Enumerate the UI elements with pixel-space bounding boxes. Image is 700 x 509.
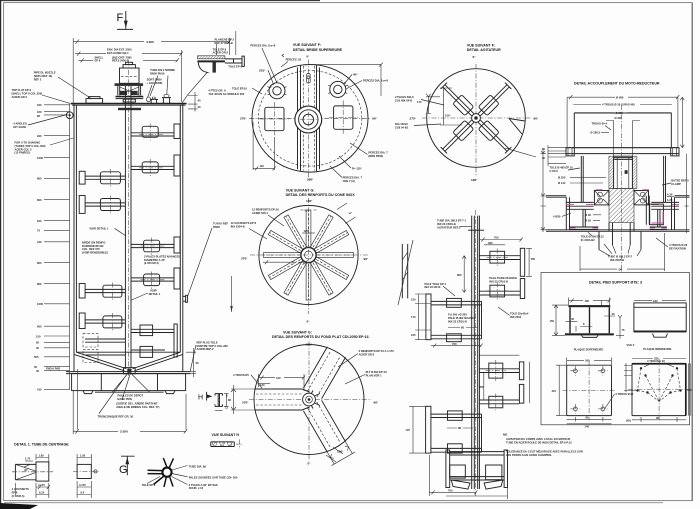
svg-text:BASE P600: BASE P600 <box>118 397 133 401</box>
svg-text:700: 700 <box>448 489 453 493</box>
svg-text:180°: 180° <box>306 199 313 203</box>
svg-text:TOLERANCE DU 2 EST MESURAGE AV: TOLERANCE DU 2 EST MESURAGE AVEC PARALLE… <box>506 449 583 453</box>
stuffing box gland <box>116 91 144 102</box>
svg-text:(SHELL TOP 0 COL.300): (SHELL TOP 0 COL.300) <box>12 92 43 96</box>
spoke strips drawn explicitly <box>0 0 1 1</box>
svg-text:4 TROUS R5: 4 TROUS R5 <box>233 373 249 377</box>
svg-text:2 PALES PLATES NUANCES: 2 PALES PLATES NUANCES <box>144 254 180 258</box>
svg-text:TROUS Ø=4: TROUS Ø=4 <box>592 122 608 126</box>
svg-text:(BRD P600): (BRD P600) <box>368 154 383 158</box>
wide spoke upper right (60deg) <box>303 347 346 400</box>
svg-text:40: 40 <box>612 312 615 316</box>
svg-text:800: 800 <box>37 261 42 265</box>
bolt circle dashed <box>258 71 362 167</box>
svg-text:DN50: DN50 <box>213 225 220 229</box>
svg-text:Ø 20: Ø 20 <box>585 218 591 222</box>
left side shelf <box>546 196 570 230</box>
svg-text:EP 6: EP 6 <box>95 59 101 63</box>
svg-text:4.175: 4.175 <box>38 483 45 487</box>
svg-text:INX 23 CR10: INX 23 CR10 <box>425 285 441 289</box>
detail view 1 <box>12 454 53 499</box>
bottom left label <box>581 232 604 241</box>
svg-text:150°: 150° <box>337 449 344 453</box>
svg-text:TOLE EP 8: TOLE EP 8 <box>142 483 156 487</box>
svg-text:(12 PAIRES): (12 PAIRES) <box>15 151 30 155</box>
4 trous label <box>233 373 262 388</box>
svg-text:INX 23 CR10-B: INX 23 CR10-B <box>489 279 508 283</box>
svg-text:TOLE 25x45x4: TOLE 25x45x4 <box>510 311 529 315</box>
outer sleeve below platform <box>599 231 641 256</box>
svg-text:(WITH REF 10): (WITH REF 10) <box>34 74 53 78</box>
svg-text:12: 12 <box>225 405 228 409</box>
svg-text:ACIER GR-2: ACIER GR-2 <box>213 51 229 55</box>
svg-text:4 TROUS Ø 18 SUR Ø 450: 4 TROUS Ø 18 SUR Ø 450 <box>602 103 635 107</box>
svg-text:Ø 30: Ø 30 <box>585 213 591 217</box>
lid fitting right eye <box>162 94 171 103</box>
12 reinforcement strips of view G <box>264 210 354 300</box>
svg-text:+ GOUJONS: + GOUJONS <box>147 81 163 85</box>
left paddle set 2 <box>79 283 125 331</box>
svg-text:90°: 90° <box>374 401 379 405</box>
svg-text:505: 505 <box>34 355 39 359</box>
svg-text:PERCES 1/2: PERCES 1/2 <box>286 58 302 62</box>
dim 480 <box>567 95 679 148</box>
lid nozzle left <box>86 97 103 104</box>
tank shell walls <box>74 104 183 372</box>
right side shelf + leg <box>672 196 690 230</box>
svg-text:PIPE DL NOZZLE: PIPE DL NOZZLE <box>34 71 56 75</box>
annotations right <box>338 349 394 384</box>
top-left small dim <box>258 383 270 387</box>
left small dims <box>541 145 567 232</box>
svg-text:TUYAU REF: TUYAU REF <box>213 221 228 225</box>
svg-text:F: F <box>117 12 124 24</box>
svg-text:EP.6 ACIER GR-1: EP.6 ACIER GR-1 <box>107 51 129 55</box>
svg-text:12 RENFORTS EP:10: 12 RENFORTS EP:10 <box>252 207 279 211</box>
svg-text:50: 50 <box>34 365 37 369</box>
svg-text:80: 80 <box>458 426 461 430</box>
agitator shaft upper <box>125 86 131 105</box>
svg-text:2 CR-2: 2 CR-2 <box>549 169 558 173</box>
svg-text:H: H <box>198 395 203 402</box>
view arrow F <box>117 11 134 29</box>
bottom dimension line <box>73 369 187 434</box>
svg-text:390: 390 <box>488 241 493 245</box>
svg-text:1200: 1200 <box>37 302 43 306</box>
svg-text:4 TROUS Ø 22: 4 TROUS Ø 22 <box>615 392 634 396</box>
svg-text:95: 95 <box>586 416 589 420</box>
svg-text:TOLE Ø 480 EP 10: TOLE Ø 480 EP 10 <box>549 166 573 170</box>
top plug in band <box>307 74 311 84</box>
shaft below <box>609 105 634 272</box>
svg-text:DN50 PN16: DN50 PN16 <box>150 71 165 75</box>
right I-beam support <box>650 209 667 229</box>
svg-text:TOLE EP 8: TOLE EP 8 <box>213 47 227 51</box>
svg-text:4 TROUS ø 22: 4 TROUS ø 22 <box>647 359 665 363</box>
dim 4 trous <box>573 103 672 107</box>
bolt flange right <box>328 81 347 97</box>
motor block <box>120 62 140 83</box>
left dimension chain <box>34 103 70 392</box>
svg-text:RAIDISSEUR GR.: RAIDISSEUR GR. <box>82 244 104 248</box>
blade 45deg <box>441 83 512 154</box>
svg-text:700: 700 <box>494 236 499 240</box>
pad right rounded rect <box>329 101 358 136</box>
svg-text:EP=10x60: EP=10x60 <box>13 125 26 129</box>
svg-text:TUBE Ø 168.3 EP:7: TUBE Ø 168.3 EP:7 <box>608 255 633 259</box>
platform line <box>546 230 690 232</box>
svg-text:CLAMP: CLAMP <box>671 182 681 186</box>
svg-text:(45): (45) <box>626 419 631 423</box>
closing edges near hub <box>302 389 320 410</box>
tank axis centerline <box>127 61 129 379</box>
svg-text:940: 940 <box>37 134 42 138</box>
svg-text:REF PLUS TOLE: REF PLUS TOLE <box>197 340 218 344</box>
hub <box>472 114 481 123</box>
svg-text:INX 2304-B: INX 2304-B <box>231 224 245 228</box>
right arm set 4 <box>479 362 529 411</box>
svg-text:DIA 100x6: DIA 100x6 <box>395 122 408 126</box>
svg-text:DETAIL ACCOUPLEMENT DU MOTO-R: DETAIL ACCOUPLEMENT DU MOTO-REDUCTEUR <box>574 82 660 86</box>
lantern big box <box>574 113 671 148</box>
svg-text:ACIER GR 3: ACIER GR 3 <box>12 95 28 99</box>
page top edge <box>0 0 320 2</box>
svg-text:310: 310 <box>687 388 692 392</box>
top text <box>437 219 472 230</box>
svg-text:PLAQUE INFERIEURE: PLAQUE INFERIEURE <box>643 347 671 351</box>
12 radial reinforcement strips <box>0 0 1 1</box>
svg-text:700: 700 <box>452 342 457 346</box>
svg-text:95: 95 <box>656 416 659 420</box>
svg-text:65: 65 <box>36 341 39 345</box>
svg-text:ACIER REP-2: ACIER REP-2 <box>197 347 215 351</box>
center hub <box>301 248 316 263</box>
svg-text:310: 310 <box>276 376 281 380</box>
small dim top <box>302 229 315 233</box>
svg-text:R= 135°: R= 135° <box>352 166 362 170</box>
bottom center label <box>604 244 633 262</box>
svg-text:170: 170 <box>406 428 411 432</box>
backing flange under lid <box>118 108 141 110</box>
svg-text:10: 10 <box>542 147 545 151</box>
svg-text:ANGLE DE BRIDES COL. REF. 77): ANGLE DE BRIDES COL. REF. 77) <box>116 405 159 409</box>
svg-text:310: 310 <box>37 240 42 244</box>
svg-text:165: 165 <box>411 333 416 337</box>
svg-text:270°: 270° <box>241 256 248 260</box>
mounting plate <box>566 148 679 156</box>
svg-text:TOP FLAT EP-0: TOP FLAT EP-0 <box>12 88 32 92</box>
dim 380 <box>575 111 671 115</box>
svg-text:G: G <box>119 464 128 476</box>
leader texts above motor right <box>147 68 176 98</box>
hatched hub strips <box>609 156 614 188</box>
bottom paddle assembly <box>429 450 507 499</box>
left outside annotations <box>12 71 93 155</box>
bottom paddles right <box>131 324 177 357</box>
left bearing flange plate <box>566 202 594 209</box>
left labels <box>549 166 606 185</box>
wide spoke lower right (-60deg) <box>300 398 355 466</box>
leader right <box>505 148 536 157</box>
svg-text:VUE SUIVANT F:: VUE SUIVANT F: <box>293 43 321 47</box>
svg-text:210°: 210° <box>445 114 451 118</box>
NB text right <box>503 432 508 436</box>
svg-text:1200: 1200 <box>37 156 43 160</box>
svg-text:AGITATEUR REF.2: AGITATEUR REF.2 <box>437 225 461 229</box>
paddle blocks <box>453 95 499 141</box>
svg-text:180: 180 <box>585 299 590 303</box>
svg-text:150: 150 <box>531 257 536 261</box>
svg-text:TRONCONIQUE REF GR. 30: TRONCONIQUE REF GR. 30 <box>98 414 134 418</box>
svg-text:60: 60 <box>461 326 464 330</box>
right paddle set 1 <box>131 124 180 177</box>
svg-text:600: 600 <box>37 325 42 329</box>
svg-text:PERCES DIA. 8 ø=8: PERCES DIA. 8 ø=8 <box>250 44 275 48</box>
svg-text:Ø 220: Ø 220 <box>558 176 566 180</box>
svg-text:INX 23 CR10-B: INX 23 CR10-B <box>437 222 456 226</box>
leaders upper <box>250 44 388 89</box>
blade 135deg <box>441 83 512 154</box>
svg-text:75: 75 <box>622 328 625 332</box>
notes bottom right of drawing <box>506 437 583 457</box>
svg-text:INX 2304-B: INX 2304-B <box>610 258 624 262</box>
svg-text:40: 40 <box>571 317 574 321</box>
page left edge <box>0 0 2 506</box>
left arm assembly 1 <box>411 282 483 348</box>
leader text right low <box>498 307 529 319</box>
svg-text:180°: 180° <box>307 177 314 181</box>
internal note lower <box>132 288 161 300</box>
dim line dia ext <box>75 48 183 102</box>
inner sleeve <box>614 156 633 188</box>
svg-text:2 RENFORTS EP:10 A 1.170: 2 RENFORTS EP:10 A 1.170 <box>359 349 395 353</box>
bottom-left black wedge <box>0 503 38 509</box>
bottom paddles left (dashed) <box>83 334 125 363</box>
frame bottom double line <box>4 502 663 504</box>
svg-text:ACIER S/N-1: ACIER S/N-1 <box>252 211 268 215</box>
svg-text:4 ANGLES: 4 ANGLES <box>13 121 27 125</box>
svg-text:800: 800 <box>37 282 42 286</box>
vertical band <box>298 65 320 171</box>
dim 330 <box>606 116 640 157</box>
svg-text:40: 40 <box>36 369 39 373</box>
right vertical dim <box>680 97 688 233</box>
svg-text:PALE PLIEE NUANCE: PALE PLIEE NUANCE <box>448 316 476 320</box>
svg-text:45°: 45° <box>353 73 358 77</box>
2 pales note <box>144 254 180 265</box>
dim line shell <box>79 55 180 62</box>
section wedge right <box>509 119 525 135</box>
base ring <box>66 372 191 391</box>
svg-text:150: 150 <box>411 298 416 302</box>
lower right leaders <box>330 143 388 183</box>
svg-text:DETAIL DES RENFORTS DU CONE IN: DETAIL DES RENFORTS DU CONE INOX <box>286 193 356 197</box>
view BR : plaque inf plan <box>624 357 692 423</box>
top platform bracket detail <box>181 31 245 105</box>
svg-text:VUE SUIVANT F:: VUE SUIVANT F: <box>467 43 495 47</box>
svg-text:180°: 180° <box>471 178 478 182</box>
svg-text:80: 80 <box>228 398 231 402</box>
right labels <box>656 179 689 251</box>
svg-text:Ø 480: Ø 480 <box>616 95 624 99</box>
svg-text:2.050: 2.050 <box>120 430 128 434</box>
svg-text:DETAIL DES RENFORTS DU FOND PL: DETAIL DES RENFORTS DU FOND PLAT CDI-205… <box>272 335 369 339</box>
svg-text:FND A PAD: FND A PAD <box>46 367 60 371</box>
detail view 2 <box>73 454 99 499</box>
svg-text:PLAN VER-1: PLAN VER-1 <box>366 374 382 378</box>
svg-text:TUBE EN ACIER ROULE DE INOX D: TUBE EN ACIER ROULE DE INOX DETAIL EP:6 … <box>506 441 572 445</box>
svg-text:VUE SUIVANT G:: VUE SUIVANT G: <box>286 188 315 192</box>
svg-text:8.4: 8.4 <box>81 491 85 495</box>
svg-text:PAILLES DE DEPOT: PAILLES DE DEPOT <box>118 394 144 398</box>
svg-text:BRIDE ON RENFO: BRIDE ON RENFO <box>82 240 105 244</box>
svg-text:VOIR: VOIR <box>150 288 157 292</box>
svg-text:VUE SUIVANT H: VUE SUIVANT H <box>212 433 240 437</box>
svg-text:270°: 270° <box>240 117 247 121</box>
left blade strip <box>398 240 413 305</box>
trous label <box>592 122 612 131</box>
svg-text:30: 30 <box>198 105 201 109</box>
svg-text:PLANCHE EP 2: PLANCHE EP 2 <box>215 38 235 42</box>
svg-text:EP 6: EP 6 <box>12 491 18 495</box>
svg-text:TAF JR EN AC MODULE 300: TAF JR EN AC MODULE 300 <box>208 92 244 96</box>
view BL : plaque sup plan <box>552 358 634 429</box>
top dim line 4.300 <box>73 38 231 103</box>
svg-text:150: 150 <box>550 319 555 323</box>
svg-text:800: 800 <box>37 177 42 181</box>
bearings left <box>594 190 609 205</box>
right arm set 1 <box>479 236 535 277</box>
svg-text:LES PROFILS EN ACIER CHARPEN.: LES PROFILS EN ACIER CHARPEN. <box>506 453 552 457</box>
svg-text:4 PTES GR. A: 4 PTES GR. A <box>208 89 225 93</box>
svg-text:30: 30 <box>542 156 545 160</box>
bottom leaders and notes <box>98 375 160 419</box>
svg-text:Ø0: Ø0 <box>619 267 623 271</box>
svg-text:COL. REF 075: COL. REF 075 <box>82 247 100 251</box>
star : tube de centrage bottom view <box>142 458 238 490</box>
leader big left <box>232 86 262 94</box>
svg-text:45°: 45° <box>24 468 28 472</box>
lifting lug <box>64 112 74 119</box>
centre bottom box <box>124 368 136 374</box>
mid vertical dim <box>457 256 466 293</box>
svg-text:8.14: 8.14 <box>39 491 45 495</box>
svg-text:REF 27 REP-B: REF 27 REP-B <box>215 41 233 45</box>
svg-text:TOLE EP 6: TOLE EP 6 <box>228 64 242 68</box>
svg-text:270°: 270° <box>242 401 249 405</box>
small channel section right of H <box>215 394 231 411</box>
agitator shaft in tank <box>125 105 131 368</box>
left I-beam support <box>570 209 599 229</box>
svg-text:(VOIR RENSEMBLE): (VOIR RENSEMBLE) <box>82 251 108 255</box>
dim 740 <box>263 260 308 264</box>
svg-text:DETAIL BRIDE SUPERIEURE: DETAIL BRIDE SUPERIEURE <box>293 48 343 52</box>
svg-text:640: 640 <box>37 103 42 107</box>
svg-text:90°: 90° <box>534 117 539 121</box>
svg-text:ACIER COL 2: ACIER COL 2 <box>15 147 32 151</box>
bolt flange left <box>268 83 287 99</box>
svg-text:TUBE DIA 168.3 EP 7-1: TUBE DIA 168.3 EP 7-1 <box>437 219 466 223</box>
svg-text:PALE PLIEE NUANCE: PALE PLIEE NUANCE <box>489 276 517 280</box>
svg-text:21 2304-B2: 21 2304-B2 <box>581 238 596 242</box>
dim right of lid <box>188 92 201 112</box>
H view marker <box>198 392 212 402</box>
right side dim of base <box>186 340 228 377</box>
svg-text:270°: 270° <box>410 116 417 120</box>
arc dim upper right <box>337 203 356 224</box>
svg-text:(2 PAIR A): (2 PAIR A) <box>12 494 25 498</box>
svg-text:A 20: A 20 <box>667 198 673 202</box>
lid fitting right small <box>150 97 158 103</box>
bottom dim of coupling <box>580 233 665 271</box>
cone bottom <box>74 352 183 371</box>
svg-text:410: 410 <box>37 388 42 392</box>
svg-text:4.175: 4.175 <box>79 483 86 487</box>
right arm set 2 <box>479 276 524 300</box>
svg-text:DE FIXATION: DE FIXATION <box>669 247 686 251</box>
svg-text:DETAIL 1. TUBE DE CENTRAGE: DETAIL 1. TUBE DE CENTRAGE <box>14 443 69 447</box>
internal note text upper left <box>89 226 126 236</box>
centerlines <box>249 60 371 181</box>
svg-text:VOIR DETAIL 1: VOIR DETAIL 1 <box>89 226 109 230</box>
svg-text:(TANKS TOP 0 COL.300): (TANKS TOP 0 COL.300) <box>15 144 46 148</box>
svg-text:(SORTIE DE L ARBRE PARTANT: (SORTIE DE L ARBRE PARTANT <box>116 401 157 405</box>
svg-text:INX 23 CR10-B: INX 23 CR10-B <box>448 319 467 323</box>
small dia labels mid <box>553 213 601 223</box>
svg-text:80: 80 <box>37 114 40 118</box>
svg-text:TUBE DIA. 89: TUBE DIA. 89 <box>189 464 207 468</box>
shaft cap <box>609 158 637 160</box>
svg-text:12 GOUSSETS EP:6: 12 GOUSSETS EP:6 <box>231 221 257 225</box>
VUE SUIVANT H small detail <box>211 433 243 449</box>
svg-text:A 30: A 30 <box>667 192 673 196</box>
svg-text:PALES SOUDEES SUR TUBE CDI- 3: PALES SOUDEES SUR TUBE CDI- 300 <box>189 476 238 480</box>
svg-text:410: 410 <box>552 389 557 393</box>
svg-text:90°: 90° <box>364 257 369 261</box>
svg-text:AGITATION DU CORPS AVEC LOCAL: AGITATION DU CORPS AVEC LOCAL DU MOTEUR <box>506 437 570 441</box>
svg-text:1.95: 1.95 <box>39 454 45 458</box>
svg-text:800: 800 <box>37 198 42 202</box>
svg-text:30: 30 <box>36 346 39 350</box>
svg-text:Tol 350 +Ø 350: Tol 350 +Ø 350 <box>448 313 467 317</box>
svg-text:4 Ø30: 4 Ø30 <box>553 214 561 218</box>
curved leader fitting <box>146 97 150 102</box>
left leader texts <box>231 207 284 239</box>
hub <box>303 393 316 406</box>
svg-text:4 TOLES A 90° EP=8x8: 4 TOLES A 90° EP=8x8 <box>189 483 218 487</box>
svg-text:CDE 7 (A): CDE 7 (A) <box>343 179 355 183</box>
svg-text:75: 75 <box>37 229 40 233</box>
svg-text:TOLE Ø 350 EP.12: TOLE Ø 350 EP.12 <box>581 234 604 238</box>
right wall nozzle <box>183 221 233 312</box>
svg-text:30: 30 <box>196 361 199 365</box>
svg-text:VUE F: VUE F <box>627 343 635 347</box>
feet <box>83 391 175 394</box>
dim 110 under left pad <box>253 122 276 170</box>
pad left rounded rect <box>260 102 289 137</box>
right paddle set 2 <box>131 237 180 289</box>
svg-text:160: 160 <box>37 110 42 114</box>
center hub <box>295 106 322 133</box>
motor base plate <box>115 83 144 86</box>
svg-text:PLT R.300 EP:10: PLT R.300 EP:10 <box>366 370 388 374</box>
svg-text:90°: 90° <box>372 117 377 121</box>
svg-text:150: 150 <box>36 334 41 338</box>
bell housing sides <box>581 156 665 203</box>
svg-text:REF 2: REF 2 <box>34 77 42 81</box>
left paddle set 1 <box>79 169 125 214</box>
tank lid <box>71 104 187 106</box>
